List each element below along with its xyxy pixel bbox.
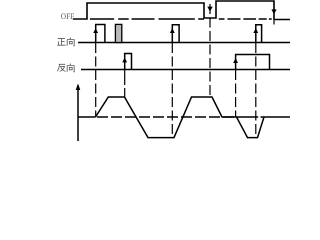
marker M5 (reverse R2 rise)	[233, 58, 238, 63]
OFF waveform	[73, 1, 290, 20]
marker M1 (forward P1 rise)	[93, 28, 98, 33]
speed y-axis arrowhead	[76, 84, 81, 91]
speed zero axis over second trough	[237, 116, 264, 118]
forward pulse P2 (gray)	[115, 24, 121, 42]
forward pulse P4	[256, 25, 262, 43]
reverse pulse R2	[236, 55, 270, 70]
reverse row baseline	[81, 69, 290, 71]
speed zero axis dashed	[97, 116, 237, 118]
marker M7 (OFF second fall, down arrow)	[271, 9, 276, 14]
forward row baseline	[78, 42, 290, 44]
svg-text:OFF: OFF	[61, 12, 75, 21]
marker M3 (forward P3 rise)	[170, 28, 175, 33]
forward pulse P1	[96, 25, 105, 43]
reverse pulse R1	[125, 54, 132, 70]
speed waveform	[96, 97, 291, 138]
forward pulse P3	[172, 25, 179, 43]
marker M2 (reverse R1 rise)	[122, 57, 127, 62]
marker M6 (forward P4 rise)	[253, 28, 258, 33]
speed zero axis solid left	[78, 116, 96, 118]
label FANXIANG (reverse) drawn glyphs	[57, 64, 74, 72]
OFF zero-level dashed baseline	[90, 18, 272, 20]
label ZHENGXIANG (forward) drawn glyphs	[57, 38, 74, 46]
marker M4 (OFF notch, down arrow)	[207, 7, 212, 12]
speed y-axis	[77, 86, 79, 142]
